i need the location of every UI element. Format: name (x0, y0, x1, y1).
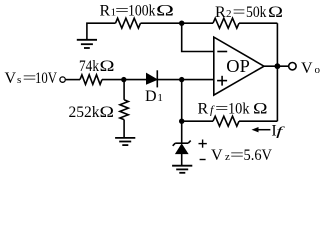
label R2=50kOhm (215, 4, 283, 21)
svg-text:Ω: Ω (156, 3, 174, 20)
svg-text:74k: 74k (79, 58, 99, 75)
wire: R2 to output rail (239, 22, 277, 24)
svg-text:R: R (198, 101, 209, 118)
svg-text:Ω: Ω (253, 101, 268, 118)
resistor 74k (80, 75, 102, 85)
svg-text:Ω: Ω (100, 104, 115, 121)
wire: output rail vertical (276, 23, 278, 121)
wire: junction to op-amp inverting input (182, 23, 214, 51)
label Vz=5.6V (211, 147, 272, 164)
label OP (226, 56, 250, 76)
label If (271, 123, 286, 140)
diode D1 (147, 70, 158, 87)
source terminal circle Vs (60, 77, 65, 82)
wire: diode to op-amp noninverting input (157, 79, 214, 81)
wire: 74k to diode (102, 79, 147, 81)
ground (below zener) (172, 166, 192, 173)
svg-text:V: V (211, 147, 223, 164)
wire: zener to ground (181, 154, 183, 166)
label Vo (301, 60, 321, 77)
wire: Rf left junction to Rf (182, 120, 213, 122)
svg-text:s: s (17, 74, 21, 86)
svg-text:5.6V: 5.6V (244, 147, 273, 164)
current arrow If (252, 127, 271, 132)
svg-text:o: o (315, 64, 321, 76)
svg-text:100k: 100k (128, 3, 156, 20)
terminal circle Vo (289, 62, 296, 69)
op-amp U1 triangle (214, 37, 264, 95)
node junction output (275, 63, 281, 69)
label D1 (145, 88, 163, 105)
label 74kOhm (79, 58, 115, 75)
wire: node A down to 252k (123, 80, 125, 100)
svg-text:R: R (100, 3, 111, 20)
svg-text:Ω: Ω (268, 4, 283, 21)
node junction R1/R2 (179, 21, 184, 26)
svg-text:R: R (215, 4, 226, 21)
wire: R1 to R2 (141, 22, 214, 24)
svg-text:OP: OP (226, 56, 250, 76)
svg-text:50k: 50k (246, 4, 267, 21)
node junction 74k/252k (121, 77, 126, 82)
svg-text:=: = (115, 3, 129, 20)
svg-text:f: f (276, 124, 286, 139)
label Vs=10V (5, 70, 58, 87)
svg-text:=: = (215, 101, 229, 118)
svg-text:10V: 10V (35, 70, 57, 87)
label Rf=10kOhm (198, 101, 268, 118)
resistor 252k (120, 100, 128, 120)
resistor R2 (213, 18, 239, 28)
wire: op-amp output to Vo terminal (264, 65, 289, 67)
wire: node B down to zener (181, 80, 183, 144)
svg-text:D: D (145, 88, 157, 105)
op-amp noninverting input marker (217, 76, 227, 86)
node junction plus-input (179, 77, 184, 82)
svg-text:252k: 252k (69, 104, 100, 121)
label 252kOhm (69, 104, 115, 121)
svg-text:10k: 10k (228, 101, 250, 118)
ground (top-left) (77, 40, 97, 48)
svg-text:2: 2 (226, 8, 232, 20)
wire: 252k to ground (123, 120, 125, 138)
svg-text:=: = (230, 147, 244, 164)
wire: Vs terminal to 74k (66, 79, 80, 81)
wire: Rf to output rail (239, 120, 277, 122)
svg-text:V: V (301, 60, 313, 77)
node junction Rf/zener (179, 119, 184, 124)
svg-text:1: 1 (157, 92, 163, 104)
resistor R1 (116, 18, 141, 28)
svg-text:=: = (233, 4, 246, 21)
label R1=100kOhm (100, 3, 175, 20)
zener minus polarity marker (200, 159, 206, 161)
svg-text:V: V (5, 70, 17, 87)
op-amp inverting input marker (217, 51, 227, 53)
wire: ground to R1 (87, 23, 116, 40)
svg-text:Ω: Ω (100, 58, 115, 75)
zener diode Vz (173, 141, 191, 154)
ground (below 252k) (115, 138, 135, 145)
resistor Rf (213, 116, 239, 126)
zener plus polarity marker (199, 140, 207, 148)
